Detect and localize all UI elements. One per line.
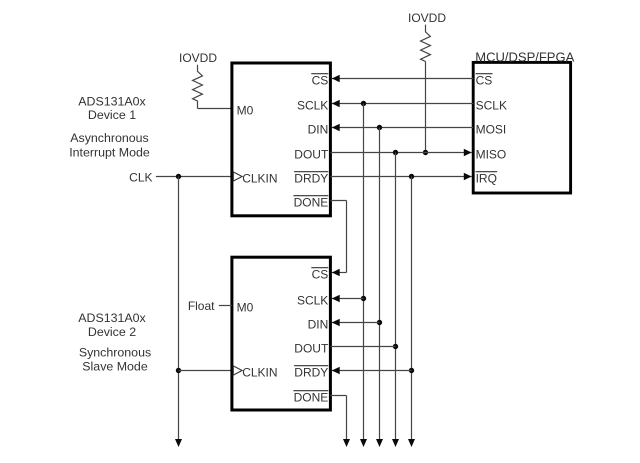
arrow SCLK bottom <box>360 439 367 447</box>
junction DOUT at U2 <box>393 344 398 349</box>
wire CLK to device 2 CLKIN <box>179 370 232 372</box>
svg-text:DRDY: DRDY <box>294 171 328 185</box>
junction DIN net to U2 drop <box>377 125 382 130</box>
wire DRDY/IRQ net <box>330 176 471 178</box>
wire U2 DONE out <box>330 395 346 397</box>
wire SCLK vertical drop to U2 and bottom <box>363 104 365 441</box>
svg-text:CS: CS <box>312 73 329 87</box>
svg-text:DONE: DONE <box>294 195 329 209</box>
svg-text:M0: M0 <box>237 300 254 314</box>
arrow into U2 DRDY <box>332 367 340 374</box>
svg-text:IOVDD: IOVDD <box>179 51 217 65</box>
svg-text:Float: Float <box>188 299 215 313</box>
arrow into U2 SCLK <box>332 295 340 302</box>
wire DRDY vertical drop to U2 and bottom <box>411 177 413 441</box>
svg-text:CS: CS <box>476 73 493 87</box>
arrow into U1 DIN <box>332 124 340 131</box>
svg-text:Synchronous: Synchronous <box>79 346 151 360</box>
svg-text:ADS131A0x: ADS131A0x <box>78 311 146 325</box>
wire DRDY stub into U2 <box>332 370 412 372</box>
wire DOUT vertical drop to U2 and bottom <box>395 153 397 441</box>
pin U1 DONE label <box>293 195 328 209</box>
svg-text:IRQ: IRQ <box>476 171 497 185</box>
wire U1 DONE to U2 CS (horizontal top) <box>330 200 346 202</box>
pin U2 DONE label <box>293 390 328 404</box>
svg-text:CS: CS <box>312 267 329 281</box>
node label Asynchronous Interrupt Mode <box>69 131 150 159</box>
arrow into MCU IRQ <box>464 173 472 180</box>
svg-text:CLK: CLK <box>129 171 152 185</box>
IC U3 MCU/DSP/FPGA box <box>473 62 570 193</box>
svg-text:SCLK: SCLK <box>297 293 328 307</box>
svg-text:DIN: DIN <box>308 317 329 331</box>
junction CLK at device 2 CLKIN <box>176 368 181 373</box>
svg-text:Device 1: Device 1 <box>88 108 136 122</box>
junction SCLK net to U2 drop <box>361 101 366 106</box>
junction DRDY at U2 <box>409 368 414 373</box>
svg-text:ADS131A0x: ADS131A0x <box>78 94 146 108</box>
arrow DRDY bottom <box>408 439 415 447</box>
wire SCLK stub into U2 <box>332 298 364 300</box>
svg-text:MCU/DSP/FPGA: MCU/DSP/FPGA <box>475 49 574 64</box>
svg-text:CLKIN: CLKIN <box>242 171 277 185</box>
junction DRDY net to U2 drop <box>409 174 414 179</box>
pin U2 CLKIN symbol <box>233 366 242 375</box>
svg-text:MOSI: MOSI <box>476 122 507 136</box>
arrow into U2 DIN <box>332 319 340 326</box>
resistor R1 (M0 pull-up) <box>193 65 203 109</box>
wire U1 DONE to U2 CS (vertical) <box>346 201 348 273</box>
arrow into U1 SCLK <box>332 100 340 107</box>
svg-text:SCLK: SCLK <box>297 98 328 112</box>
svg-text:Device 2: Device 2 <box>88 325 136 339</box>
wire DIN stub into U2 <box>332 322 380 324</box>
svg-text:MISO: MISO <box>476 147 507 161</box>
wire CLK to device 1 CLKIN <box>156 176 232 178</box>
junction R2 on DOUT net <box>423 150 428 155</box>
svg-text:DIN: DIN <box>308 122 329 136</box>
junction CLK node <box>176 174 181 179</box>
svg-text:Asynchronous: Asynchronous <box>70 131 149 145</box>
wire CLK vertical drop <box>178 177 180 441</box>
arrow into MCU MISO <box>464 149 472 156</box>
pin U2 DRDY label <box>294 365 328 379</box>
svg-text:Interrupt Mode: Interrupt Mode <box>69 145 150 159</box>
wire R2 bottom to DOUT net <box>425 62 427 153</box>
arrow DOUT bottom <box>392 439 399 447</box>
wire U1 DONE to U2 CS (horizontal bottom) <box>332 272 347 274</box>
pin U1 DRDY label <box>294 171 328 185</box>
wire DOUT stub into U2 <box>330 346 395 348</box>
svg-text:SCLK: SCLK <box>476 98 507 112</box>
wire Float to device 2 M0 <box>219 305 232 307</box>
IC U1 ADS131A0x Device 1 box <box>232 63 331 216</box>
pin U3 CS label <box>476 73 493 87</box>
pin U1 CLKIN symbol <box>233 172 242 181</box>
wire R1 bottom to device 1 M0 pin <box>198 108 232 110</box>
svg-text:Slave Mode: Slave Mode <box>82 360 148 374</box>
svg-text:DRDY: DRDY <box>294 365 328 379</box>
svg-text:M0: M0 <box>237 103 254 117</box>
wire MOSI/DIN net <box>332 127 473 129</box>
IC U2 ADS131A0x Device 2 box <box>232 257 331 410</box>
arrow DIN bottom <box>376 439 383 447</box>
svg-text:DOUT: DOUT <box>294 147 329 161</box>
resistor R2 (DOUT pull-up) <box>421 25 431 62</box>
wire SCLK net (MCU SCLK to U1 SCLK) <box>332 103 473 105</box>
svg-text:IOVDD: IOVDD <box>408 11 446 25</box>
junction DOUT net to U2 drop <box>393 150 398 155</box>
svg-text:CLKIN: CLKIN <box>242 365 277 379</box>
arrow CLK continues down <box>175 439 182 447</box>
junction SCLK at U2 <box>361 296 366 301</box>
pin U1 CS label <box>311 73 328 87</box>
node label ADS131A0x Device 2 <box>78 311 146 339</box>
arrow U2 DONE bottom <box>343 439 350 447</box>
pin U2 CS label <box>311 267 328 281</box>
wire DOUT/MISO net <box>330 152 471 154</box>
wire DIN vertical drop to U2 and bottom <box>379 128 381 441</box>
node label Synchronous Slave Mode <box>79 346 151 374</box>
arrow into U2 CS <box>332 269 340 276</box>
wire U2 DONE vertical drop <box>346 396 348 441</box>
node label ADS131A0x Device 1 <box>78 94 146 122</box>
pin U3 IRQ label <box>476 171 498 185</box>
arrow into U1 CS <box>332 75 340 82</box>
svg-text:DONE: DONE <box>294 390 329 404</box>
junction DIN at U2 <box>377 320 382 325</box>
wire CS net (MCU CS to U1 CS) <box>332 78 473 80</box>
svg-text:DOUT: DOUT <box>294 341 329 355</box>
